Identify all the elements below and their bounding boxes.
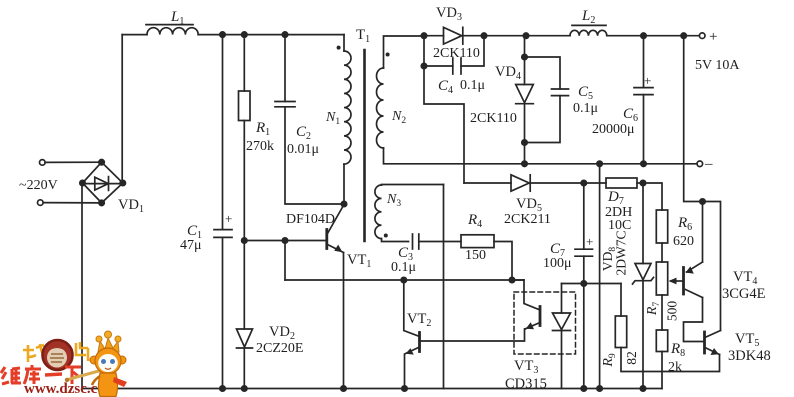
svg-text:+: +	[709, 29, 717, 45]
capacitor C2 bottom plate	[275, 106, 295, 108]
capacitor C6 bottom plate	[634, 94, 653, 96]
wire: C3 to R4	[419, 241, 461, 243]
transistor VT5 base bar	[703, 332, 706, 353]
junction: top rail / +5V feed column	[681, 33, 686, 38]
optocoupler VT3 dashed box	[514, 292, 576, 354]
svg-text:270k: 270k	[246, 139, 274, 154]
junction: feedback line / R4 branch	[509, 277, 514, 282]
wire: R9 top to LED sense line	[620, 284, 622, 317]
wire: R4 to feedback line corner	[494, 242, 512, 281]
wire: R7 to R8	[661, 295, 663, 330]
bridge rectifier VD1 diamond	[83, 162, 123, 203]
diode VD5 cathode bar	[529, 175, 531, 191]
watermark gold text pian (片) stroke approximation	[76, 342, 88, 361]
wire: bridge right vertex up to top rail	[121, 35, 123, 183]
junction: VD4 column / C5 top branch	[522, 54, 527, 59]
svg-text:CD315: CD315	[505, 376, 547, 392]
wire: D7 to zener node	[637, 182, 643, 184]
wire: R1 column down to VD2	[243, 241, 245, 330]
diode VD4 cathode bar	[516, 103, 534, 105]
svg-text:+: +	[225, 211, 232, 226]
mascot arm left	[92, 376, 100, 385]
wire: top rail from L1 to transformer N1 top	[198, 34, 344, 36]
potentiometer R7 wiper arm	[671, 280, 684, 282]
inductor L2 core bar	[572, 24, 606, 26]
svg-text:2k: 2k	[668, 360, 682, 375]
mascot crown	[98, 338, 119, 352]
wire: C6 node to plus terminal	[644, 35, 700, 37]
watermark red text yi (一) stroke approximation	[45, 374, 62, 375]
svg-text:150: 150	[465, 248, 486, 263]
transistor VT4 emitter arrow	[686, 266, 694, 273]
wire: N2 top lead	[384, 36, 425, 68]
diode VD3 cathode bar	[462, 27, 464, 44]
AC input terminal top	[40, 160, 46, 166]
capacitor C3 right plate	[418, 234, 420, 249]
svg-text:2CK110: 2CK110	[470, 111, 517, 126]
mascot scarf	[113, 377, 127, 387]
watermark stamp inner fist	[47, 348, 67, 368]
ground rail (bottom common rail)	[82, 388, 662, 390]
wire: N3 top lead	[382, 184, 444, 187]
svg-text:2CK211: 2CK211	[504, 212, 551, 227]
optocoupler LED anode lead	[561, 284, 563, 314]
svg-text:47μ: 47μ	[180, 238, 202, 253]
potentiometer R7 wiper arrow	[669, 278, 677, 285]
wire: VD2 to ground rail	[243, 348, 245, 389]
wire: VD5 anode wire	[464, 182, 511, 184]
wire: R1 column upper	[243, 35, 245, 91]
wire: base line from R1 node to VT1 base	[244, 240, 326, 242]
wire: feedback line corner into opto collector	[512, 279, 524, 281]
inductor L2 coil	[570, 30, 607, 35]
wire: VT1 emitter down to ground rail	[343, 253, 345, 389]
junction: top rail / C1 column	[220, 32, 225, 37]
watermark gold text zhao (找) stroke approximation	[23, 344, 46, 362]
wire: branch from base line down to feedback line	[284, 241, 286, 281]
svg-text:+: +	[586, 234, 593, 249]
wire: minus drop column to ground rail	[599, 164, 601, 389]
mascot crown ball mid	[105, 331, 112, 338]
transistor VT5 emitter	[706, 348, 720, 355]
watermark stamp inner shade	[46, 348, 68, 354]
transistor VT1 base bar	[325, 230, 328, 249]
resistor R9 body	[615, 316, 626, 348]
capacitor C1 top plate	[214, 229, 232, 231]
bridge VD1 internal diode line	[83, 183, 123, 185]
junction: top rail / C4 right branch	[481, 33, 486, 38]
wire: C4 right lead up to top rail	[461, 36, 484, 66]
zener diode VD8 cathode bar with wings	[633, 277, 654, 284]
bridge VD1 internal diode cathode bar	[108, 177, 110, 191]
junction: rail / minus drop column	[597, 386, 602, 391]
wire: C4 left lead	[424, 36, 453, 66]
svg-text:5V 10A: 5V 10A	[695, 58, 740, 73]
wire: LED cathode to ground rail	[561, 331, 563, 389]
optocoupler phototransistor emitter	[525, 323, 540, 330]
transistor VT4 emitter	[687, 262, 703, 272]
mascot ear left	[90, 356, 98, 364]
wire: VD5 to C7 node	[530, 182, 606, 184]
svg-text:–: –	[704, 156, 713, 172]
watermark red text xia (下) stroke approximation	[65, 367, 81, 384]
transistor VT5 collector	[706, 331, 721, 338]
svg-text:2CZ20E: 2CZ20E	[256, 341, 303, 356]
output terminal plus	[699, 33, 705, 39]
transistor VT1 collector	[328, 205, 345, 234]
wire: VD4 column lower	[524, 104, 526, 164]
svg-text:~220V: ~220V	[19, 178, 58, 193]
capacitor C2 top plate	[275, 101, 295, 103]
resistor R4 body	[461, 235, 494, 248]
wire: L2 to C6 node	[607, 35, 644, 37]
transistor VT2 emitter arrow	[406, 348, 414, 354]
transformer T1 core	[363, 50, 366, 241]
optocoupler phototransistor emitter arrow	[526, 322, 534, 329]
svg-text:+: +	[644, 73, 651, 88]
wire: bottom terminal to bridge bottom vertex	[43, 202, 101, 204]
wire: R6 branch from D7 node	[643, 183, 662, 210]
wire: N1 bottom lead	[343, 164, 345, 204]
junction: VD4 column / C5 bottom branch	[522, 140, 527, 145]
diode D7 body box	[606, 178, 637, 188]
junction: rail / VT1 emitter	[341, 386, 346, 391]
resistor R1 body	[239, 91, 251, 121]
wire: R6 to R7	[661, 243, 663, 262]
transformer winding N2	[377, 68, 384, 148]
junction: D7 / VD8 zener / R6 branch	[640, 180, 645, 185]
junction: top rail / C4 left branch	[421, 33, 426, 38]
wire: R8 to ground rail	[661, 352, 663, 389]
wire: N2 bottom lead	[384, 148, 525, 164]
svg-text:2CK110: 2CK110	[433, 46, 480, 61]
transistor VT1 emitter	[328, 245, 344, 253]
junction: rail / C1	[220, 386, 225, 391]
watermark red text ku (库) stroke approximation	[24, 365, 41, 384]
resistor R8 body	[656, 330, 667, 352]
wire: C6 column upper	[643, 36, 645, 88]
wire: C1 column lower to ground rail	[222, 237, 224, 388]
mascot eye left	[101, 359, 106, 364]
capacitor C5 bottom plate	[552, 95, 569, 97]
wire: C4 node down and over to VD5 column	[424, 66, 464, 183]
wire: C2 column down to N1 bottom wire	[285, 107, 344, 204]
capacitor C7 bottom plate	[575, 255, 593, 257]
mascot face	[98, 354, 118, 372]
junction: bridge top vertex	[99, 160, 104, 165]
wire: VT4 collector to VT5 base (jog)	[684, 298, 704, 342]
optocoupler LED cathode bar	[553, 330, 571, 332]
junction: VD5 wire / C7 column	[581, 180, 586, 185]
wire: secondary top rail N2 to VD3	[424, 35, 444, 37]
bridge VD1 internal diode triangle	[95, 177, 109, 190]
junction: bridge left vertex	[80, 180, 85, 185]
junction: base line / feedback branch	[282, 238, 287, 243]
mascot stick tip	[65, 378, 69, 382]
svg-text:DF104D: DF104D	[286, 212, 335, 227]
wire: C6 column lower	[643, 95, 645, 164]
capacitor C1 bottom plate	[214, 236, 232, 238]
diode VD2 cathode bar	[237, 347, 253, 349]
watermark red stamp circle	[43, 340, 73, 370]
svg-text:0.1μ: 0.1μ	[391, 260, 416, 275]
diode VD5 triangle	[511, 175, 529, 191]
wire: feed node to VT5 collector column	[703, 202, 721, 331]
capacitor C4 left plate	[452, 58, 454, 74]
capacitor C4 right plate	[460, 58, 462, 74]
transformer winding N1	[344, 51, 351, 164]
mascot ear right	[118, 356, 126, 364]
transistor VT5 emitter arrow	[711, 348, 719, 355]
zener diode VD8 triangle	[635, 264, 651, 280]
watermark red text wei (维) stroke approximation	[1, 367, 21, 384]
phase dot N1	[337, 46, 341, 50]
transistor VT2 emitter	[405, 347, 420, 389]
junction: top rail / R1 column	[242, 32, 247, 37]
mascot eye right	[110, 359, 115, 364]
junction: return rail / minus drop column	[597, 161, 602, 166]
wire: opto emitter to VT2 base	[420, 329, 526, 341]
svg-text:0.1μ: 0.1μ	[460, 78, 485, 93]
capacitor C6 top plate	[634, 87, 653, 89]
svg-text:3DK48: 3DK48	[728, 348, 771, 364]
wire: N1 top lead	[343, 35, 345, 51]
transistor VT1 emitter arrow	[334, 245, 342, 253]
optocoupler phototransistor base bar	[539, 307, 542, 326]
junction: bridge bottom vertex	[99, 200, 104, 205]
inductor L1 coil	[147, 28, 198, 35]
wire: VT5 emitter to R9 bottom	[621, 348, 720, 372]
potentiometer R7 body	[656, 262, 667, 295]
wire: N3 top vertical down to ground rail	[443, 185, 445, 389]
AC input terminal bottom	[38, 200, 44, 206]
diode VD4 triangle	[516, 85, 534, 103]
svg-text:0.01μ: 0.01μ	[287, 142, 319, 157]
phase dot N3	[384, 234, 388, 238]
svg-text:620: 620	[673, 234, 694, 249]
resistor R6 body	[656, 210, 667, 243]
svg-text:100μ: 100μ	[543, 256, 572, 271]
transistor VT4 collector	[686, 290, 703, 298]
wire: feedback line y280	[285, 279, 524, 281]
wire: C2 column upper	[284, 35, 286, 102]
wire: R1 bottom to base line	[243, 121, 245, 241]
wire: N3 bottom lead to C3	[382, 239, 409, 242]
wire: VD3 to C4 right branch node	[463, 35, 484, 37]
mascot crown ball left	[96, 336, 102, 342]
junction: rail / VD2	[242, 386, 247, 391]
svg-text:82: 82	[624, 351, 639, 365]
junction: top rail / C2 column	[282, 32, 287, 37]
watermark stamp fist lines	[50, 354, 64, 362]
junction: feedback line / VT2 collector	[401, 277, 406, 282]
wire: secondary return rail to minus terminal	[525, 163, 697, 165]
junction: rail / C7 column	[581, 386, 586, 391]
junction: return rail / C6 column	[641, 161, 646, 166]
mascot mouth	[105, 368, 111, 369]
mascot body	[99, 373, 118, 397]
wire: C5 top branch	[525, 57, 561, 89]
svg-text:500: 500	[665, 301, 680, 322]
junction: bridge right vertex	[120, 180, 125, 185]
capacitor C3 left plate	[412, 234, 414, 249]
svg-text:20000μ: 20000μ	[592, 122, 635, 137]
capacitor C5 top plate	[552, 88, 569, 90]
wire: bridge left vertex down to ground rail	[81, 183, 83, 389]
wire: top rail left segment to L1	[122, 34, 147, 36]
wire: VD4 column upper	[524, 36, 526, 85]
junction: rail / VT2 emitter	[402, 386, 407, 391]
mascot stick	[66, 369, 106, 380]
capacitor C7 top plate	[575, 248, 593, 250]
wire: C1 column upper	[222, 35, 224, 230]
svg-text:3CG4E: 3CG4E	[722, 286, 766, 302]
mascot crown ball right	[115, 336, 121, 342]
wire: top rail VD4 node to L2	[526, 35, 570, 37]
wire: top terminal to bridge top vertex	[45, 161, 101, 163]
wire: C5 bottom branch	[525, 96, 561, 143]
transistor VT4 base bar	[682, 268, 685, 295]
svg-text:2DW7C: 2DW7C	[614, 231, 629, 276]
wire: LED sense line	[562, 283, 622, 285]
junction: top rail / VD4 column	[523, 33, 528, 38]
diode VD3 triangle	[444, 27, 462, 44]
wire: C7 column upper	[583, 183, 585, 249]
junction: R1 column / base line	[242, 238, 247, 243]
mascot head	[95, 348, 121, 374]
junction: top rail / C6 column	[641, 33, 646, 38]
inductor L1 core bar	[146, 24, 193, 26]
wire: C7 column lower to ground rail	[583, 256, 585, 388]
transformer winding N3	[375, 185, 382, 239]
wire: zener VD8 bottom lead to rail	[642, 281, 644, 389]
optocoupler phototransistor collector	[524, 280, 540, 310]
junction: VT4 emitter feed node	[700, 199, 705, 204]
junction: N1 bottom / C2 / VT1 collector	[341, 201, 346, 206]
transistor VT2 collector	[404, 280, 420, 337]
wire: +5V feed column from top rail	[684, 36, 703, 202]
transistor VT2 base bar	[418, 333, 421, 352]
svg-text:0.1μ: 0.1μ	[573, 101, 598, 116]
wire: zener VD8 top lead	[642, 183, 644, 264]
output terminal minus	[697, 161, 703, 167]
wire: feed node down to VT4 emitter	[702, 202, 704, 263]
phase dot N2	[386, 53, 390, 57]
junction: C4 left / VD5 branch	[421, 63, 426, 68]
diode VD2 triangle	[237, 329, 253, 347]
wire: top rail to VD4 node	[484, 35, 526, 37]
junction: C7 column / LED sense line	[581, 281, 586, 286]
junction: VD4 column / secondary return wire	[522, 161, 527, 166]
junction: rail / zener column	[640, 386, 645, 391]
optocoupler LED triangle	[553, 313, 571, 330]
